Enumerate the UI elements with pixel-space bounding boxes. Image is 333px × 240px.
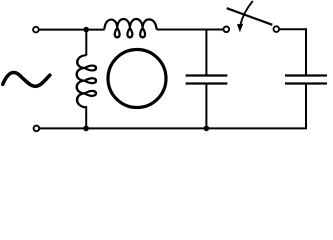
wire (tee down to capacitor C1) [205,30,207,75]
wire (coil to bottom junction) [85,106,87,128]
wire (junction down to coil) [85,30,87,56]
switch SW1 motion arrow (curve) [240,1,253,25]
wire top-right (contact to corner and down) [279,29,306,74]
node B (bottom-left junction dot) [83,126,89,132]
wire top-middle (coil to switch contact) [157,29,224,31]
capacitor C1 top plate [186,74,228,76]
motor M (circle) [108,50,166,108]
wire (C2 down to bottom wire) [206,85,306,129]
wire (C1 to bottom junction) [205,85,207,129]
inductor L2 (horizontal winding) [104,19,156,37]
terminal top-left [33,27,39,33]
node C (bottom-middle junction dot) [204,126,210,132]
switch SW1 blade [227,8,273,25]
switch SW1 left contact [224,27,230,33]
switch SW1 right contact [274,26,280,32]
inductor L1 (vertical winding) [77,55,96,107]
capacitor C2 top plate [285,74,327,76]
capacitor C1 bottom plate [186,82,228,84]
node A (top-left junction dot) [83,27,89,33]
switch SW1 motion arrowhead [237,24,243,33]
wire bottom (terminal to mid junction) [39,127,206,129]
AC source S1 (sine symbol) [3,73,50,87]
wire top-left (terminal to junction) [39,29,105,31]
terminal bottom-left [34,126,40,132]
capacitor C2 bottom plate [285,82,327,84]
